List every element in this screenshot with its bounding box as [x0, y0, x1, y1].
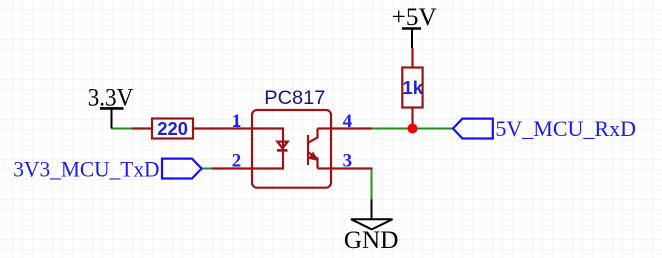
svg-text:4: 4	[343, 111, 353, 132]
svg-text:5V_MCU_RxD: 5V_MCU_RxD	[495, 116, 636, 141]
svg-text:3.3V: 3.3V	[88, 84, 134, 111]
svg-text:PC817: PC817	[264, 88, 325, 109]
svg-text:3V3_MCU_TxD: 3V3_MCU_TxD	[13, 157, 159, 182]
svg-text:3: 3	[343, 150, 353, 171]
svg-text:GND: GND	[344, 227, 399, 254]
svg-text:1k: 1k	[403, 77, 424, 98]
svg-text:1: 1	[232, 111, 242, 132]
svg-text:+5V: +5V	[392, 4, 437, 31]
svg-text:2: 2	[232, 150, 242, 171]
svg-text:220: 220	[157, 118, 188, 139]
